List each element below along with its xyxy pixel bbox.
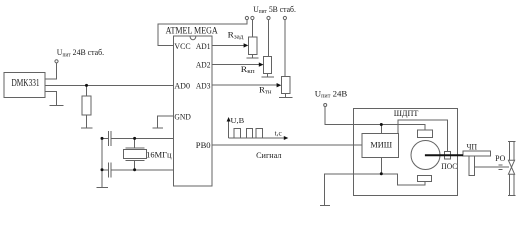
wire terminal to Rзад <box>251 20 253 37</box>
potentiometer Rкп <box>264 57 272 74</box>
shaft of motor <box>425 154 463 156</box>
capacitor C1 <box>107 131 109 146</box>
svg-text:AD0: AD0 <box>174 80 190 90</box>
terminal Uпит 24В <box>324 104 327 107</box>
wire DMK331 out2 (AD0 net) <box>45 84 174 86</box>
wire left rail of crystal caps <box>101 138 103 187</box>
svg-text:U,В: U,В <box>231 116 245 125</box>
ground below Rкп <box>262 76 275 78</box>
wire XTAL1 <box>111 137 173 139</box>
svg-text:AD3: AD3 <box>196 80 211 90</box>
wire bottom return to ground <box>325 174 425 206</box>
junction node crystal bottom <box>133 168 136 171</box>
svg-text:PB0: PB0 <box>196 140 211 150</box>
junction node crystal top <box>133 137 136 140</box>
notch of MCU package <box>190 37 196 40</box>
wire 24V supply into ШДПТ to МИШ and brush <box>325 107 425 130</box>
ground for GND pin <box>153 127 164 129</box>
wire МИШ top stub <box>380 125 382 134</box>
brush top <box>418 130 433 138</box>
valve РО triangles <box>508 160 514 167</box>
ground below crystal rail <box>97 187 109 189</box>
valve РО pipe bottom <box>508 174 510 195</box>
svg-text:ПОС: ПОС <box>441 162 457 171</box>
ground below Rзад <box>247 57 259 59</box>
svg-text:МИШ: МИШ <box>370 140 392 150</box>
junction node crystal rail top <box>101 137 104 140</box>
junction node crystal rail bottom <box>101 168 104 171</box>
svg-text:Rзад: Rзад <box>228 30 245 40</box>
svg-text:Сигнал: Сигнал <box>256 151 281 160</box>
wire AD1 to Rзад wiper <box>212 44 244 46</box>
ground below DMK331 <box>50 105 64 107</box>
svg-text:ATMEL MEGA: ATMEL MEGA <box>166 26 218 36</box>
svg-text:DMK331: DMK331 <box>12 78 40 89</box>
wire МИШ bottom stub <box>380 158 382 174</box>
wire VCC to +5V terminal <box>158 20 247 46</box>
svg-text:ЧП: ЧП <box>467 142 478 151</box>
arrowhead waveform y-axis <box>227 117 231 122</box>
svg-text:РО: РО <box>495 154 505 163</box>
svg-text:Uпит 24В стаб.: Uпит 24В стаб. <box>57 47 104 58</box>
brush bottom <box>417 176 431 182</box>
ground below Rтн <box>279 97 292 99</box>
arrowhead waveform x-axis <box>284 136 289 140</box>
wire DMK331 out1 to +24V terminal <box>45 63 57 79</box>
wire position feedback ПОС to МИШ <box>398 120 447 152</box>
motor M rotor circle <box>411 141 440 170</box>
valve РО pipe top <box>508 142 510 161</box>
terminal Uпит 24В стаб. <box>55 60 58 63</box>
svg-text:GND: GND <box>174 111 190 121</box>
wire XTAL2 <box>111 169 173 171</box>
ground at 24V return <box>320 205 330 207</box>
svg-text:VCC: VCC <box>174 41 190 51</box>
sensor ПОС square <box>444 152 450 160</box>
junction node return at МИШ <box>380 172 383 175</box>
block ШДПТ boundary <box>354 109 458 196</box>
svg-text:Uпит 24В: Uпит 24В <box>315 89 348 100</box>
waveform pulses <box>234 129 240 138</box>
wire AD2 to Rкп wiper <box>212 64 260 66</box>
wire terminal to Rкп <box>268 20 270 57</box>
waveform inset: y-axis <box>228 120 230 138</box>
wire AD3 to Rтн wiper <box>212 84 277 86</box>
svg-text:t,с: t,с <box>275 129 283 138</box>
potentiometer Rзад <box>248 37 257 55</box>
waveform inset: x-axis <box>229 137 286 139</box>
wire terminal to Rтн <box>284 20 286 77</box>
ground below R1 <box>81 127 92 129</box>
arrowhead wiper Rтн <box>277 83 282 87</box>
sensor DMK331 <box>4 72 45 97</box>
potentiometer Rтн <box>281 76 290 93</box>
svg-text:Rкп: Rкп <box>241 65 256 75</box>
gear ЧП worm vertical <box>469 156 475 175</box>
svg-text:AD1: AD1 <box>196 41 211 51</box>
block МИШ <box>362 133 399 157</box>
wire PB0 signal to МИШ <box>212 144 362 146</box>
gear ЧП horizontal <box>463 151 490 156</box>
junction node 24V at МИШ <box>380 123 383 126</box>
terminal +5V for Rтн <box>283 16 286 19</box>
svg-text:Rтн: Rтн <box>259 86 272 96</box>
svg-text:Uпит 5В стаб.: Uпит 5В стаб. <box>253 4 296 15</box>
stem to valve РО <box>475 166 509 168</box>
svg-text:ШДПТ: ШДПТ <box>394 108 419 118</box>
resistor R1 (load on AD0 net) <box>86 85 88 95</box>
wire DMK331 out3 to ground <box>45 91 57 105</box>
svg-text:AD2: AD2 <box>196 59 211 69</box>
wire GND pin to ground <box>158 116 174 128</box>
crystal Z1 16МГц <box>134 138 136 147</box>
terminal +5V for Rкп <box>267 16 270 19</box>
arrowhead wiper Rзад <box>244 43 249 47</box>
svg-text:16МГц: 16МГц <box>146 150 172 159</box>
junction node on AD0 net <box>85 84 88 87</box>
MCU U1 ATMEL MEGA body <box>174 36 213 186</box>
coupling marks <box>498 164 502 166</box>
terminal +5V for Rзад <box>251 16 254 19</box>
arrowhead wiper Rкп <box>259 62 264 66</box>
capacitor C2 <box>107 162 109 177</box>
terminal +5V for VCC <box>245 16 248 19</box>
